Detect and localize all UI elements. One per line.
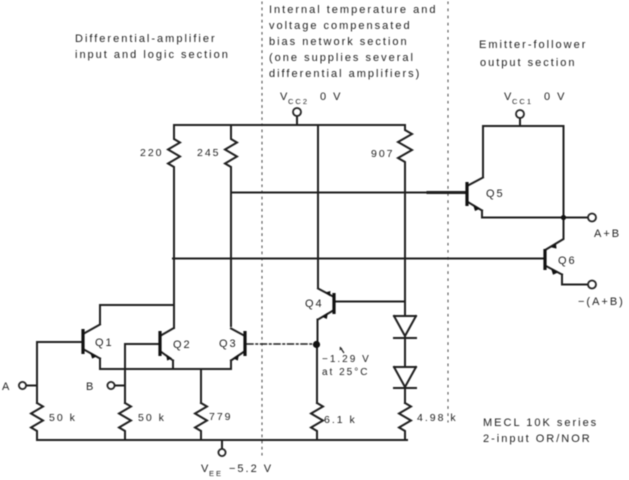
svg-text:50 k: 50 k <box>49 412 77 424</box>
svg-text:Internal temperature and: Internal temperature and <box>269 4 437 16</box>
svg-text:Q3: Q3 <box>219 338 238 350</box>
svg-text:input and logic section: input and logic section <box>75 49 230 61</box>
svg-text:50 k: 50 k <box>138 412 166 424</box>
svg-text:EE: EE <box>209 469 223 478</box>
svg-text:0 V: 0 V <box>320 91 343 103</box>
svg-text:0 V: 0 V <box>544 91 567 103</box>
svg-text:MECL 10K series: MECL 10K series <box>483 417 598 429</box>
svg-text:Q5: Q5 <box>486 188 505 200</box>
svg-text:779: 779 <box>209 411 233 423</box>
svg-text:output section: output section <box>480 57 577 69</box>
svg-text:4.98 k: 4.98 k <box>417 412 458 424</box>
svg-text:Q2: Q2 <box>173 339 192 351</box>
svg-text:CC2: CC2 <box>288 97 309 106</box>
svg-text:Differential-amplifier: Differential-amplifier <box>75 33 217 45</box>
svg-text:differential amplifiers): differential amplifiers) <box>269 68 421 80</box>
svg-text:−5.2 V: −5.2 V <box>229 463 273 475</box>
svg-text:(one supplies several: (one supplies several <box>269 52 415 64</box>
svg-text:2-input OR/NOR: 2-input OR/NOR <box>483 433 592 445</box>
svg-text:Q1: Q1 <box>95 337 114 349</box>
svg-text:A: A <box>2 381 11 393</box>
svg-text:voltage compensated: voltage compensated <box>269 20 412 32</box>
svg-text:A+B: A+B <box>594 228 621 240</box>
svg-text:CC1: CC1 <box>512 97 533 106</box>
svg-text:bias network section: bias network section <box>269 36 409 48</box>
svg-text:6.1 k: 6.1 k <box>324 414 357 426</box>
svg-text:−(A+B): −(A+B) <box>578 296 625 308</box>
svg-text:Emitter-follower: Emitter-follower <box>479 39 587 51</box>
svg-text:−1.29 V: −1.29 V <box>322 354 371 365</box>
svg-text:Q4: Q4 <box>305 298 324 310</box>
svg-text:220: 220 <box>140 147 164 159</box>
svg-text:B: B <box>86 381 95 393</box>
svg-text:Q6: Q6 <box>558 255 577 267</box>
svg-text:245: 245 <box>197 147 221 159</box>
svg-text:at 25°C: at 25°C <box>322 367 369 378</box>
svg-text:907: 907 <box>371 148 395 160</box>
